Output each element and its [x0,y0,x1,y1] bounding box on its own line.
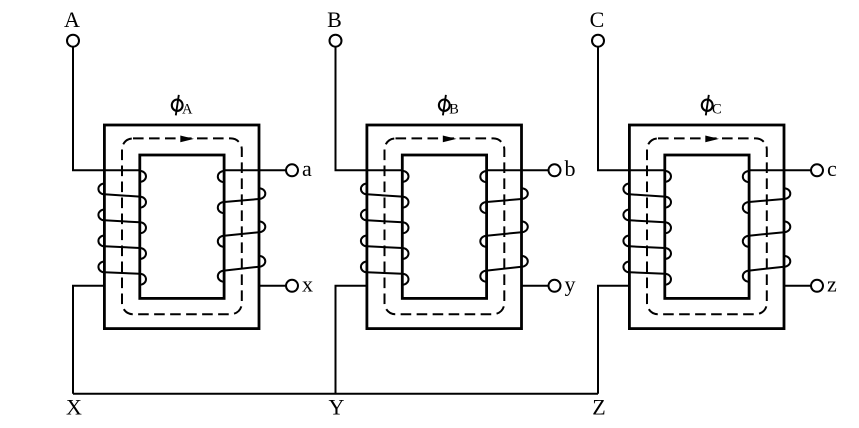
neutral bus wire X-Y-Z [73,393,598,395]
svg-text:C: C [590,7,605,32]
T2 flux path (dashed loop) [385,138,505,314]
svg-text:B: B [327,7,342,32]
svg-text:Y: Y [329,395,345,420]
T3 flux label phi_C [702,95,722,118]
T1 primary winding (left leg, 5 turns) [98,171,146,285]
wire T3 primary exit to Z [598,286,629,394]
terminal b circle [549,164,561,176]
T3 primary winding (left leg, 5 turns) [623,171,671,285]
wire T3 secondary to terminal z [784,285,811,287]
terminal z circle [811,280,823,292]
svg-text:y: y [565,271,576,296]
T1 secondary winding (right leg, 4 turns) [218,171,266,282]
T3 secondary winding (right leg, 4 turns) [743,171,791,282]
T1 flux direction arrow [180,136,194,143]
transformer T2 core (outer boundary) [367,125,522,329]
wire B to T2 primary entry [336,47,403,170]
wire T2 primary exit to Y [336,286,367,394]
svg-text:B: B [449,102,459,118]
svg-text:x: x [302,271,313,296]
svg-text:C: C [712,102,722,118]
transformer T2 core window (inner boundary) [402,155,486,298]
T3 flux direction arrow [705,136,719,143]
T2 flux label phi_B [439,95,459,118]
wire C to T3 primary entry [598,47,665,170]
terminal C circle [592,35,604,47]
transformer T1 core window (inner boundary) [140,155,224,298]
svg-text:X: X [66,395,82,420]
terminal B circle [330,35,342,47]
wire T2 secondary to terminal y [522,285,549,287]
svg-text:Z: Z [592,395,605,420]
T2 primary winding (left leg, 5 turns) [361,171,409,285]
terminal x circle [286,280,298,292]
svg-text:z: z [827,271,837,296]
T1 flux label phi_A [172,95,193,118]
terminal a circle [286,164,298,176]
T3 flux path (dashed loop) [647,138,767,314]
T1 flux path (dashed loop) [122,138,242,314]
svg-text:A: A [64,7,80,32]
svg-text:A: A [182,102,193,118]
wire T1 secondary to terminal a [224,169,286,171]
T2 secondary winding (right leg, 4 turns) [480,171,528,282]
terminal A circle [67,35,79,47]
wire A to T1 primary entry [73,47,140,170]
terminal c circle [811,164,823,176]
T2 flux direction arrow [443,136,457,143]
terminal y circle [549,280,561,292]
wire T2 secondary to terminal b [487,169,549,171]
wire T1 primary exit to X [73,286,104,394]
transformer T3 core window (inner boundary) [665,155,749,298]
transformer T1 core (outer boundary) [104,125,259,329]
wire T1 secondary to terminal x [259,285,286,287]
svg-text:b: b [565,156,576,181]
svg-text:a: a [302,156,312,181]
svg-text:c: c [827,156,837,181]
transformer T3 core (outer boundary) [629,125,784,329]
wire T3 secondary to terminal c [749,169,811,171]
